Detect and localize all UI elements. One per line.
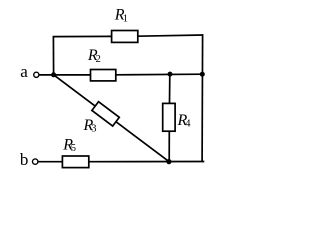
svg-text:2: 2 — [96, 54, 101, 65]
svg-text:a: a — [20, 62, 28, 81]
svg-text:4: 4 — [185, 118, 191, 129]
svg-text:5: 5 — [71, 143, 76, 154]
svg-text:3: 3 — [91, 123, 96, 134]
svg-text:1: 1 — [123, 13, 128, 24]
svg-text:b: b — [20, 150, 29, 169]
